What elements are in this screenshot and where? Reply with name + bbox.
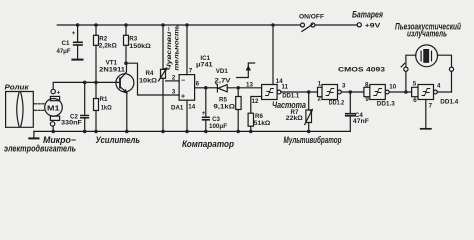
svg-text:2,7V: 2,7V (215, 78, 232, 85)
svg-text:+9V: +9V (365, 23, 381, 30)
svg-text:R3: R3 (129, 36, 137, 43)
svg-text:излучатель: излучатель (407, 29, 447, 39)
svg-text:10: 10 (389, 84, 396, 91)
svg-text:8: 8 (365, 82, 369, 89)
svg-text:R2: R2 (99, 36, 107, 43)
svg-text:Частота: Частота (272, 100, 306, 110)
svg-text:2: 2 (172, 75, 176, 82)
svg-text:3: 3 (172, 89, 176, 96)
svg-text:100μF: 100μF (209, 123, 227, 130)
svg-text:C3: C3 (212, 116, 220, 123)
svg-text:DA1: DA1 (171, 105, 184, 112)
svg-text:14: 14 (276, 78, 283, 85)
svg-text:+: + (181, 94, 185, 101)
svg-text:330nF: 330nF (61, 119, 82, 126)
svg-text:5: 5 (413, 80, 417, 87)
svg-text:9,1kΩ: 9,1kΩ (214, 104, 236, 111)
svg-text:12: 12 (252, 98, 259, 105)
svg-text:Ролик: Ролик (5, 83, 30, 92)
svg-text:47nF: 47nF (353, 118, 369, 125)
svg-text:C1: C1 (62, 40, 70, 47)
svg-text:М1: М1 (47, 105, 60, 112)
svg-text:электродвигатель: электродвигатель (4, 143, 76, 153)
svg-text:Батарея: Батарея (352, 10, 384, 20)
svg-text:7: 7 (189, 68, 193, 75)
svg-text:47μF: 47μF (57, 49, 71, 55)
svg-text:ON/OFF: ON/OFF (299, 14, 324, 21)
svg-text:6: 6 (413, 97, 417, 104)
svg-text:Компаратор: Компаратор (182, 139, 234, 149)
svg-text:22kΩ: 22kΩ (286, 115, 303, 122)
svg-text:+: + (57, 90, 61, 97)
svg-text:+: + (202, 110, 206, 117)
svg-text:–: – (56, 118, 60, 125)
svg-text:R6: R6 (255, 113, 263, 120)
svg-text:VT1: VT1 (106, 60, 118, 67)
svg-text:R1: R1 (100, 96, 108, 103)
svg-text:2N1911: 2N1911 (99, 67, 125, 74)
svg-text:Мультивибратор: Мультивибратор (284, 135, 342, 145)
svg-text:VD1: VD1 (216, 68, 229, 75)
svg-text:Чувстви−: Чувстви− (166, 26, 173, 70)
svg-text:3: 3 (342, 83, 346, 90)
svg-text:тельность: тельность (174, 24, 181, 70)
svg-text:14: 14 (188, 104, 195, 111)
svg-text:DD1.3: DD1.3 (377, 101, 395, 108)
svg-text:9: 9 (365, 96, 369, 103)
svg-text:1: 1 (318, 80, 322, 87)
svg-text:1kΩ: 1kΩ (101, 105, 112, 112)
svg-text:R5: R5 (219, 97, 227, 104)
svg-text:DD1.4: DD1.4 (440, 99, 458, 106)
svg-text:2: 2 (318, 96, 322, 103)
svg-text:7: 7 (429, 102, 433, 109)
svg-text:6: 6 (196, 81, 200, 88)
svg-text:Усилитель: Усилитель (96, 135, 141, 145)
svg-text:51kΩ: 51kΩ (254, 120, 271, 127)
svg-text:DD1.2: DD1.2 (329, 100, 345, 107)
svg-text:13: 13 (246, 82, 253, 89)
svg-text:+: + (72, 30, 76, 37)
svg-text:2,2kΩ: 2,2kΩ (99, 43, 117, 50)
svg-text:10kΩ: 10kΩ (139, 78, 157, 85)
svg-text:μ741: μ741 (196, 62, 213, 69)
svg-text:CMOS 4093: CMOS 4093 (338, 67, 385, 74)
svg-text:150kΩ: 150kΩ (129, 43, 151, 50)
svg-text:R4: R4 (146, 70, 154, 77)
svg-text:−: − (181, 78, 185, 85)
svg-text:4: 4 (437, 83, 441, 90)
svg-text:DD1.1: DD1.1 (282, 93, 299, 100)
